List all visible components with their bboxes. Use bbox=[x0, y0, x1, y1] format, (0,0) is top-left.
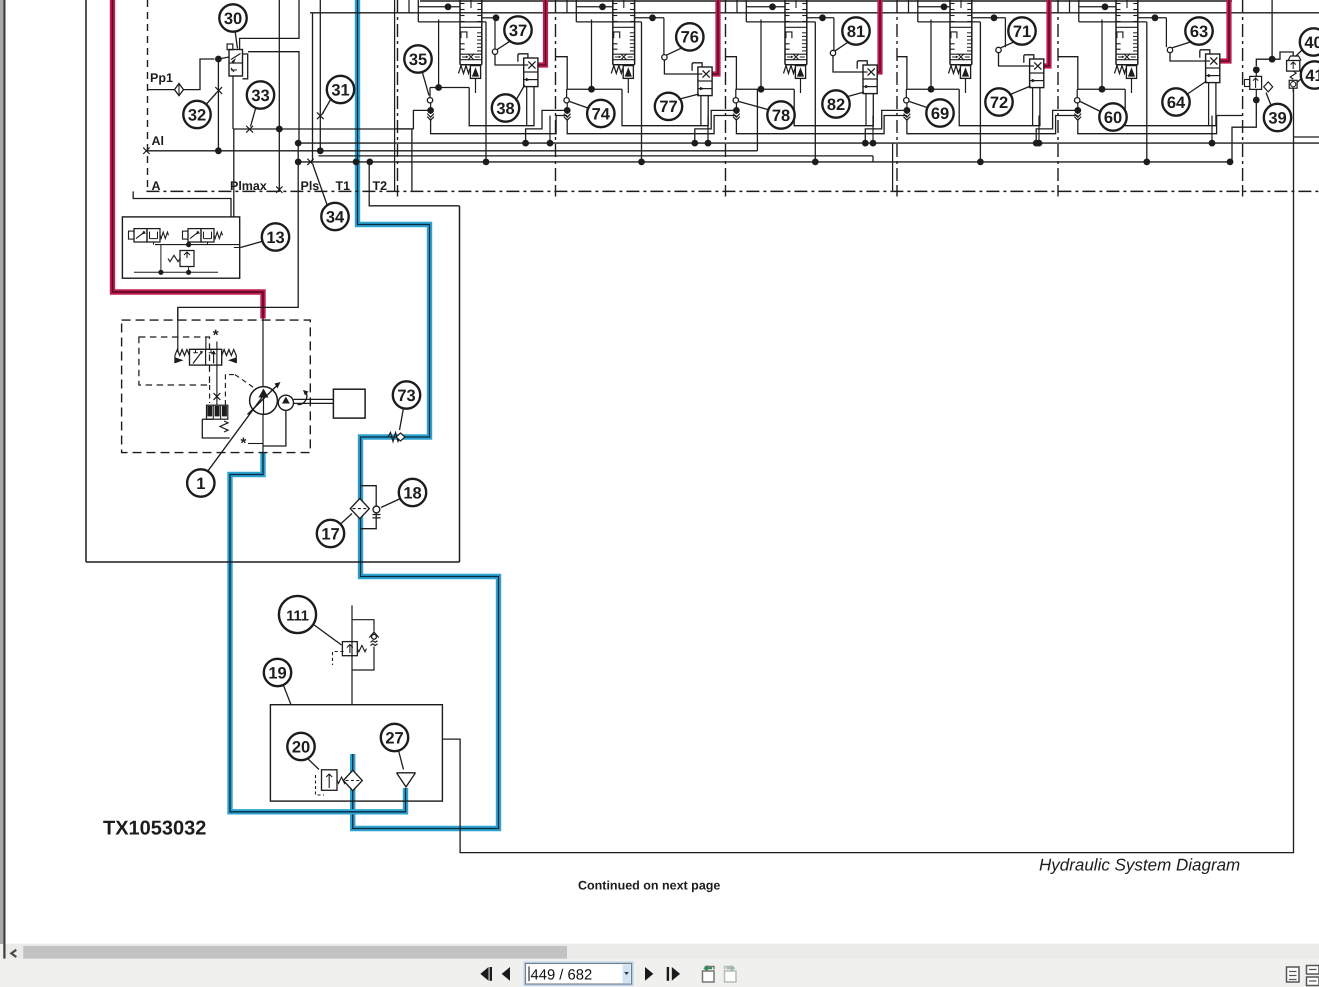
circle label 18 bbox=[399, 479, 426, 506]
pilot pump circle bbox=[278, 395, 293, 410]
pointer 39 bbox=[1266, 93, 1272, 107]
svg-text:40: 40 bbox=[1304, 34, 1319, 52]
wire right cluster bbox=[1256, 59, 1272, 66]
pump regulator dashed box bbox=[139, 337, 210, 385]
wire center riser section 2 bbox=[641, 22, 643, 162]
svg-text:60: 60 bbox=[1104, 109, 1122, 127]
compensator hook section 4 bbox=[1024, 55, 1034, 63]
spool spring section 4 bbox=[949, 66, 960, 74]
wire dot to valve 30 bbox=[218, 57, 229, 59]
valve 111 bbox=[342, 642, 357, 656]
svg-text:31: 31 bbox=[331, 81, 349, 99]
wire center riser section 3 bbox=[814, 22, 816, 162]
second riser bbox=[205, 337, 207, 349]
staircase top-left section 4 bbox=[917, 0, 919, 22]
wire B-port riser section 2 bbox=[591, 20, 593, 90]
svg-text:41: 41 bbox=[1305, 67, 1319, 85]
next-view icon (disabled) bbox=[725, 971, 737, 982]
single page view icon bbox=[1287, 967, 1300, 982]
pointer 32 bbox=[206, 94, 217, 106]
valve block boundary dash-dot horizontal bbox=[146, 190, 1319, 192]
red pressure stub section 1 bbox=[538, 0, 546, 65]
junction dot center riser 1 bbox=[483, 159, 490, 166]
pump circuit outer box bbox=[85, 0, 87, 562]
junction dot 13 rail bbox=[186, 242, 191, 247]
wire LS down to pump regulator bbox=[178, 143, 298, 320]
wire drain jog left section 4 bbox=[865, 110, 907, 143]
circle label 73 bbox=[393, 381, 420, 408]
rotation arc arrow bbox=[298, 392, 307, 405]
wire A port to box 13 bbox=[133, 191, 231, 217]
left port assembly section 4 bbox=[905, 89, 907, 97]
pilot to compensator wire section 1 bbox=[495, 55, 524, 66]
bus line y156 bbox=[319, 155, 874, 157]
wire valve30 out right bbox=[248, 52, 299, 143]
svg-text:Al: Al bbox=[152, 134, 165, 148]
svg-text:76: 76 bbox=[681, 29, 699, 47]
circle compensator label section 5 bbox=[1162, 88, 1189, 115]
svg-text:81: 81 bbox=[847, 23, 865, 41]
circle label 13 bbox=[262, 223, 289, 250]
x-mark orifice 31 bbox=[317, 112, 324, 119]
svg-text:73: 73 bbox=[397, 387, 415, 405]
pilot block dashed left boundary bbox=[147, 0, 149, 191]
circle label 32 bbox=[183, 101, 210, 128]
regulator valve body bbox=[190, 349, 222, 365]
pilot to compensator wire section 3 bbox=[833, 56, 863, 72]
wire left port drop section 4 bbox=[907, 116, 1078, 134]
compensator hook section 3 bbox=[857, 61, 867, 69]
wire staircase lower section 1 bbox=[469, 87, 534, 126]
pilot port circle section 2 bbox=[663, 18, 665, 55]
junction dot Al x321 bbox=[317, 147, 324, 154]
circle pilot label section 4 bbox=[1008, 17, 1035, 44]
valve 20 bbox=[322, 770, 338, 791]
staircase top-left section 5 bbox=[1078, 0, 1080, 22]
wire pump outlet top bbox=[262, 319, 264, 388]
wire pilot pump down bbox=[264, 410, 286, 446]
svg-text:35: 35 bbox=[409, 51, 427, 69]
section boundary dash-dot bbox=[725, 0, 727, 186]
wire left port rail 3 bbox=[736, 88, 794, 90]
main spool valve section 4 bbox=[949, 0, 951, 65]
pilot reducing valve 13b bbox=[188, 229, 201, 242]
circle label 34 bbox=[321, 203, 348, 230]
inter-section link wire 3 bbox=[726, 57, 736, 89]
circle label 30 bbox=[219, 4, 246, 31]
spool spring section 3 bbox=[784, 66, 795, 74]
pilot reducing valve 13a bbox=[134, 229, 147, 242]
svg-text:T1: T1 bbox=[336, 179, 351, 193]
pilot valve block 13 box bbox=[122, 217, 239, 278]
svg-text:37: 37 bbox=[509, 22, 527, 40]
staircase top-right section 1 bbox=[482, 17, 495, 19]
circle left-port label section 3 bbox=[767, 101, 794, 128]
wire drain jog left section 5 bbox=[1036, 110, 1078, 143]
spool actuator section 2 bbox=[623, 66, 633, 79]
regulator sense line down through valve bbox=[216, 342, 218, 406]
wire right edge branch bbox=[1294, 136, 1319, 138]
wire B-port riser section 5 bbox=[1101, 20, 1103, 90]
filter 41 bbox=[1289, 80, 1297, 88]
wire drain jog left section 1 bbox=[395, 110, 431, 128]
x-mark 33 orifice bbox=[246, 126, 253, 133]
x-mark feedback bbox=[214, 393, 221, 400]
compensator valve section 5 bbox=[1206, 54, 1220, 83]
bus line T y161 bbox=[298, 161, 1230, 163]
left port assembly section 1 bbox=[429, 88, 431, 98]
junction dot LS bus section 4 bbox=[1036, 140, 1043, 147]
svg-text:33: 33 bbox=[251, 87, 269, 105]
wire y129 rail bbox=[233, 128, 412, 130]
svg-text:Plmax: Plmax bbox=[230, 179, 267, 193]
tank box 19 bbox=[270, 705, 442, 801]
circle label 39 bbox=[1264, 104, 1291, 131]
staircase top-right section 5 bbox=[1138, 17, 1167, 19]
junction dot T bus end bbox=[1227, 159, 1234, 166]
compensator valve section 3 bbox=[863, 65, 877, 94]
svg-text:1: 1 bbox=[196, 475, 205, 493]
x-mark Pls port bbox=[307, 159, 313, 165]
wire center riser section 5 bbox=[1146, 22, 1148, 162]
inter-section link wire 4 bbox=[898, 57, 907, 89]
inter-section link wire 2 bbox=[556, 57, 567, 89]
red pressure stub section 3 bbox=[877, 0, 880, 72]
wire B-port riser section 1 bbox=[438, 20, 440, 88]
wire left port rail 4 bbox=[906, 88, 959, 90]
blue pump suction line from tank strainer bbox=[230, 453, 406, 812]
section boundary dash-dot bbox=[397, 0, 399, 186]
svg-text:Pls: Pls bbox=[301, 179, 320, 193]
wire y129 corner down to box13 bbox=[233, 129, 235, 217]
circle pilot label section 3 bbox=[842, 17, 869, 44]
svg-text:20: 20 bbox=[292, 738, 310, 756]
svg-text:13: 13 bbox=[266, 229, 284, 247]
junction dot T1 bbox=[353, 159, 360, 166]
spool actuator section 4 bbox=[960, 66, 970, 79]
section boundary dash-dot bbox=[1242, 0, 1244, 186]
pointer 73 bbox=[400, 408, 404, 430]
junction dot left port top 1 bbox=[435, 84, 442, 91]
pilot to compensator wire section 2 bbox=[664, 60, 698, 74]
circle label 1 bbox=[187, 469, 214, 496]
circle label 40 bbox=[1300, 28, 1319, 55]
wire cluster to bus bbox=[1232, 100, 1256, 162]
wire stub x892 bbox=[892, 143, 894, 191]
orifice Pp1 diamond bbox=[175, 84, 184, 96]
svg-text:17: 17 bbox=[321, 525, 339, 543]
compensator valve section 2 bbox=[698, 67, 712, 96]
svg-text:72: 72 bbox=[990, 94, 1008, 112]
wire Al rail riser at x757 bbox=[756, 89, 758, 151]
svg-text:30: 30 bbox=[224, 10, 242, 28]
staircase top-right section 4 bbox=[972, 17, 1006, 19]
circle label 35 bbox=[404, 45, 431, 72]
circle compensator label section 1 bbox=[492, 94, 519, 121]
junction dot valve30 inlet bbox=[215, 56, 222, 63]
svg-text:63: 63 bbox=[1190, 23, 1208, 41]
filter 20 diamond bbox=[343, 770, 362, 790]
spool actuator section 1 bbox=[470, 66, 480, 79]
section boundary dash-dot bbox=[896, 0, 898, 186]
junction dot center riser 2 bbox=[638, 159, 645, 166]
wire center riser section 4 bbox=[979, 22, 981, 162]
junction dot left port top 2 bbox=[588, 86, 595, 93]
solenoid valve 30 bbox=[229, 50, 243, 77]
wire left port drop section 3 bbox=[736, 116, 907, 134]
circle compensator label section 4 bbox=[985, 88, 1012, 115]
circle left-port label section 5 bbox=[1099, 103, 1126, 130]
wire left port rail 2 bbox=[567, 88, 622, 90]
spool spring section 5 bbox=[1115, 66, 1126, 74]
pilot port circle section 1 bbox=[494, 18, 496, 49]
staircase top-left section 2 bbox=[575, 0, 577, 22]
wire staircase lower section 3 bbox=[794, 89, 873, 126]
wire 111 riser bbox=[351, 605, 353, 704]
staircase top-left section 3 bbox=[745, 0, 747, 22]
svg-text:Pp1: Pp1 bbox=[150, 71, 173, 85]
junction dot LS x299 bbox=[295, 140, 302, 147]
svg-text:*: * bbox=[241, 435, 247, 452]
x-mark Plmax port bbox=[276, 186, 282, 192]
wire B-port riser section 3 bbox=[760, 20, 762, 90]
wire Pp1 from boundary to step bbox=[148, 89, 175, 91]
circle left-port label section 2 bbox=[587, 100, 614, 127]
circle label 19 bbox=[264, 659, 291, 686]
pilot valve riser into dashed box bbox=[177, 307, 179, 352]
pointer 34 bbox=[313, 165, 328, 206]
circle label 111 bbox=[279, 596, 316, 633]
swash plate line bbox=[248, 384, 279, 415]
toolbar prev-page button bbox=[502, 967, 510, 981]
svg-text:77: 77 bbox=[659, 98, 677, 116]
wire staircase lower section 5 bbox=[1125, 83, 1216, 126]
inter-section link wire 5 bbox=[1059, 57, 1078, 89]
pointer 17 bbox=[340, 514, 352, 525]
pilot to compensator wire section 4 bbox=[999, 53, 1030, 66]
svg-text:78: 78 bbox=[772, 107, 790, 125]
main spool valve section 3 bbox=[784, 0, 786, 65]
wire pump inlet bottom bbox=[262, 414, 264, 452]
compensator valve section 4 bbox=[1030, 59, 1044, 88]
wire bus corner x312 bbox=[312, 13, 314, 162]
svg-text:34: 34 bbox=[326, 208, 345, 226]
wire vertical x218 Pp1 to Al rail bbox=[217, 59, 219, 151]
junction dot left port top 3 bbox=[758, 86, 765, 93]
x-mark Al rail left end bbox=[143, 148, 149, 154]
wire drain jog left section 2 bbox=[526, 110, 568, 143]
check valve 18 bbox=[373, 506, 380, 513]
circle compensator label section 3 bbox=[822, 90, 849, 117]
pointer 18 bbox=[381, 499, 401, 508]
staircase top-left section 1 bbox=[417, 0, 419, 22]
left port assembly section 5 bbox=[1076, 89, 1078, 97]
wire box13 feed from y129 bbox=[234, 247, 240, 249]
red pressure stub section 4 bbox=[1044, 0, 1049, 66]
pump unit dash-dot box bbox=[122, 320, 311, 453]
junction dot T2 bbox=[366, 159, 373, 166]
circle pilot label section 5 bbox=[1185, 17, 1212, 44]
spool spring section 1 bbox=[459, 66, 470, 74]
spool spring section 2 bbox=[611, 66, 622, 74]
circle label 27 bbox=[381, 724, 408, 751]
circle label 41 bbox=[1301, 61, 1319, 88]
circle pilot label section 2 bbox=[676, 23, 703, 50]
spool actuator section 5 bbox=[1126, 66, 1136, 79]
wire staircase lower section 4 bbox=[959, 88, 1040, 126]
wire valve30 left drain down bbox=[232, 76, 234, 129]
filter 17 diamond bbox=[350, 499, 369, 519]
svg-text:74: 74 bbox=[592, 105, 611, 123]
bus line cut top edge bbox=[420, 0, 1232, 2]
relief 111b bbox=[352, 620, 374, 632]
junction dot right riser bbox=[1269, 56, 1276, 63]
diamond orifice 39 bbox=[1264, 82, 1273, 92]
bus line LS y143 bbox=[298, 142, 1319, 144]
wire staircase lower section 2 bbox=[622, 89, 708, 126]
wire 13 bottom rail bbox=[134, 271, 218, 273]
wire box13 drops bbox=[153, 242, 155, 245]
pointer 111 bbox=[314, 625, 342, 646]
wire box13 internal rail bbox=[155, 244, 240, 246]
left port assembly section 2 bbox=[566, 89, 568, 97]
drive shaft lines bbox=[294, 398, 334, 400]
page number input box bbox=[525, 963, 633, 986]
compensator hook section 5 bbox=[1200, 50, 1210, 58]
window chrome: left edge strip bbox=[0, 0, 3, 944]
relief valve 40 bbox=[1287, 61, 1300, 72]
svg-text:Continued on next page: Continued on next page bbox=[578, 879, 720, 893]
bus line P top bbox=[310, 12, 1319, 14]
wire left port drop section 5 bbox=[1078, 116, 1243, 134]
pointer 1 bbox=[208, 398, 263, 472]
main spool valve section 2 bbox=[612, 0, 614, 65]
staircase top-right section 2 bbox=[635, 17, 664, 19]
pilot port circle section 4 bbox=[1004, 18, 1006, 47]
pointer 19 bbox=[284, 686, 292, 705]
junction dot x299 T bbox=[295, 159, 302, 166]
compensator valve section 1 bbox=[524, 58, 538, 87]
relief valve 13c bbox=[180, 251, 194, 267]
pointer 31 bbox=[323, 98, 332, 114]
red pressure stub section 2 bbox=[712, 0, 718, 74]
continuous view icon bbox=[1307, 966, 1319, 986]
engine box bbox=[333, 389, 365, 418]
svg-text:18: 18 bbox=[403, 484, 421, 502]
circle label 17 bbox=[317, 520, 344, 547]
wire drain jog left section 3 bbox=[695, 110, 737, 143]
component 17-18 box bbox=[361, 486, 377, 529]
junction dot LS bus section 2 bbox=[705, 140, 712, 147]
spool actuator section 3 bbox=[795, 66, 805, 79]
orifice 73 on blue line bbox=[388, 433, 400, 442]
regulator springs bbox=[175, 350, 190, 356]
toolbar first-page button bbox=[480, 967, 488, 981]
pilot to compensator wire section 5 bbox=[1170, 53, 1206, 61]
svg-text:32: 32 bbox=[188, 106, 206, 124]
svg-text:449 / 682: 449 / 682 bbox=[531, 967, 593, 983]
junction dot LS bus section 5 bbox=[1209, 140, 1216, 147]
junction dot center riser 4 bbox=[977, 159, 984, 166]
compensator hook section 1 bbox=[518, 54, 528, 62]
circle left-port label section 4 bbox=[926, 99, 953, 126]
feedback metering boxes dark bbox=[207, 405, 228, 419]
pump main circle bbox=[250, 387, 278, 415]
wire left port rail 1 bbox=[430, 87, 469, 89]
junction dot Al rail x218 bbox=[215, 147, 222, 154]
junction dot center riser 3 bbox=[812, 159, 819, 166]
svg-text:38: 38 bbox=[496, 100, 514, 118]
pointer 27 bbox=[399, 751, 404, 770]
main spool valve section 5 bbox=[1115, 0, 1117, 65]
svg-text:39: 39 bbox=[1268, 109, 1286, 127]
svg-text:A: A bbox=[152, 179, 161, 193]
circle label 20 bbox=[287, 733, 314, 760]
wire left port drop section 2 bbox=[567, 116, 736, 134]
junction dot below cluster bbox=[1253, 97, 1260, 104]
staircase top-right section 3 bbox=[807, 17, 834, 19]
dashed link to swash bbox=[209, 385, 211, 403]
wire 40 top link bbox=[1272, 52, 1293, 59]
orifice 32 x-mark bbox=[215, 87, 222, 94]
svg-text:69: 69 bbox=[931, 105, 949, 123]
wire riser x411 to boundary bbox=[411, 129, 413, 191]
blue tank return line T1 to tank filter bbox=[353, 0, 499, 829]
svg-text:64: 64 bbox=[1167, 94, 1186, 112]
bottom chrome background bbox=[0, 944, 1319, 987]
pilot port circle section 5 bbox=[1165, 18, 1167, 47]
pointer 30 bbox=[235, 31, 238, 49]
wire Plmax vertical x280 bbox=[278, 0, 280, 192]
junction dot left port top 4 bbox=[928, 86, 935, 93]
red pressure stub section 5 bbox=[1220, 0, 1229, 61]
wire stub x394 bbox=[394, 0, 396, 191]
pointer 35 bbox=[422, 71, 429, 96]
strainer 27 bbox=[397, 772, 416, 774]
junction dot LS bus section 3 bbox=[870, 140, 877, 147]
junction dot left port top 5 bbox=[1099, 86, 1106, 93]
pilot port circle section 3 bbox=[833, 18, 835, 50]
svg-text:82: 82 bbox=[827, 96, 845, 114]
section boundary dash-dot bbox=[1057, 0, 1059, 186]
section boundary dash-dot bbox=[555, 0, 557, 186]
wire riser x873 bbox=[872, 156, 874, 162]
toolbar last-page button bbox=[667, 967, 669, 981]
wire tank to valve block return bbox=[442, 88, 1293, 853]
svg-text:TX1053032: TX1053032 bbox=[103, 818, 206, 840]
compensator hook section 2 bbox=[692, 63, 702, 71]
svg-text:Hydraulic System Diagram: Hydraulic System Diagram bbox=[1039, 856, 1240, 875]
feedback spring bbox=[220, 421, 228, 432]
pointer 13 bbox=[241, 241, 264, 248]
wire right section riser bbox=[1271, 0, 1273, 59]
wire T2 to outer box edge bbox=[368, 162, 370, 194]
svg-text:71: 71 bbox=[1013, 23, 1031, 41]
main spool valve section 1 bbox=[459, 0, 461, 65]
feedback step wire bbox=[202, 419, 229, 438]
junction dot LS bus section 1 bbox=[547, 140, 554, 147]
svg-text:111: 111 bbox=[286, 608, 309, 624]
circle label 33 bbox=[247, 81, 274, 108]
svg-text:27: 27 bbox=[385, 729, 403, 747]
left port assembly section 3 bbox=[735, 89, 737, 97]
reducing valve 39 cluster bbox=[1250, 76, 1262, 89]
svg-text:T2: T2 bbox=[373, 179, 388, 193]
pointer 20 bbox=[308, 759, 320, 770]
svg-text:19: 19 bbox=[268, 664, 286, 682]
wire center riser section 1 bbox=[485, 22, 487, 162]
toolbar next-page button bbox=[645, 967, 653, 981]
